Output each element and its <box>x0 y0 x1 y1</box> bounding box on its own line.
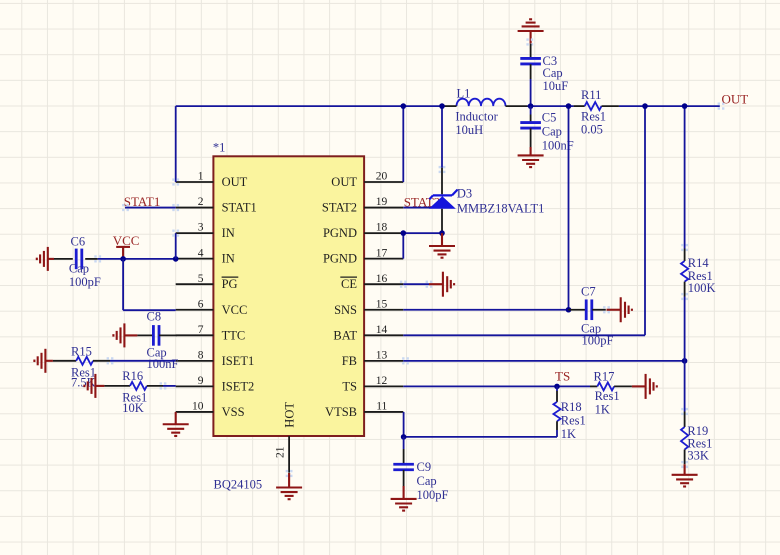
svg-text:16: 16 <box>376 273 388 285</box>
svg-text:20: 20 <box>376 171 388 183</box>
junction VCC <box>120 256 126 262</box>
wire C7 riser from top net <box>568 106 570 310</box>
wire VCC to pin6 <box>123 309 176 311</box>
ground below C5 <box>518 147 544 167</box>
pin 16 CE <box>364 283 403 285</box>
diode D3 MMBZ18VALT1 <box>441 168 443 195</box>
junction FB <box>682 358 688 364</box>
svg-text:STAT2: STAT2 <box>322 201 357 215</box>
svg-text:9: 9 <box>198 375 204 387</box>
resistor R18 <box>556 386 558 391</box>
wire VCC down to pin6 <box>122 259 124 310</box>
resistor R19 <box>684 361 686 412</box>
junction marker R19 bottom pin <box>681 461 688 468</box>
svg-text:ISET2: ISET2 <box>222 379 255 393</box>
pin 12 TS <box>364 385 403 387</box>
junction marker CE wire end <box>426 281 433 288</box>
svg-text:IN: IN <box>222 252 235 266</box>
svg-text:FB: FB <box>342 354 357 368</box>
junction SNS C7 <box>566 307 572 313</box>
junction VTSB C9 <box>401 434 407 440</box>
svg-text:1: 1 <box>198 171 204 183</box>
resistor R11 <box>574 105 585 107</box>
wire SNS net <box>403 309 568 311</box>
ground GND at pin 10 VSS <box>163 412 189 436</box>
svg-text:L1: L1 <box>457 87 471 101</box>
resistor R15 <box>53 360 76 362</box>
pin 21 stub <box>288 436 290 473</box>
pin 19 STAT2 <box>364 207 403 209</box>
ground at top of C3 <box>518 19 544 43</box>
junction marker R16 lead <box>160 382 167 389</box>
junction marker pin1 corner <box>172 178 179 185</box>
svg-text:10K: 10K <box>122 401 144 415</box>
svg-text:STAT1: STAT1 <box>124 194 161 209</box>
pin 2 STAT1 <box>176 207 214 209</box>
capacitor C9 <box>403 437 405 449</box>
wire pin3 riser <box>175 233 177 259</box>
pin 17 PGND <box>364 258 403 260</box>
pin 4 IN <box>176 258 214 260</box>
svg-text:5: 5 <box>198 273 204 285</box>
wire STAT2 from pin 19 <box>403 207 433 209</box>
junction pin3 riser <box>173 256 179 262</box>
svg-text:21: 21 <box>275 446 287 458</box>
capacitor C5 <box>530 106 532 114</box>
junction marker R19 top pin <box>681 408 688 415</box>
junction marker C3 top <box>526 38 533 45</box>
svg-text:10uH: 10uH <box>455 123 483 137</box>
svg-text:HOT: HOT <box>283 402 297 428</box>
svg-text:R17: R17 <box>594 370 615 384</box>
junction D3 bottom <box>439 230 445 236</box>
wire CE to ground <box>403 283 429 285</box>
svg-text:PGND: PGND <box>323 252 357 266</box>
svg-text:OUT: OUT <box>331 175 357 189</box>
pin 8 ISET1 <box>176 360 214 362</box>
wire VTSB to R18 <box>404 436 557 438</box>
svg-text:VCC: VCC <box>113 233 140 248</box>
junction marker CE stub end <box>400 281 407 288</box>
junction marker R15 lead <box>107 357 114 364</box>
svg-text:1K: 1K <box>595 403 610 417</box>
svg-text:100pF: 100pF <box>69 275 101 289</box>
ground right of R17 <box>632 374 657 399</box>
capacitor C3 <box>530 44 532 59</box>
svg-text:Cap: Cap <box>542 124 562 138</box>
pin 1 OUT <box>176 181 214 183</box>
resistor R14 <box>684 106 686 248</box>
junction marker R14 top pin <box>681 244 688 251</box>
wire pin18 to pin17 riser <box>402 233 404 259</box>
pin 14 BAT <box>364 334 403 336</box>
ground right of C7 <box>607 297 632 322</box>
svg-text:C5: C5 <box>542 110 557 124</box>
pin 20 OUT <box>364 181 403 183</box>
pin 10 VSS <box>176 411 214 413</box>
svg-text:Cap: Cap <box>69 262 89 276</box>
ground below C9 <box>391 486 417 511</box>
junction C3/C5 on top net <box>528 103 534 109</box>
resistor R16 <box>104 385 130 387</box>
svg-text:10uF: 10uF <box>543 79 569 93</box>
svg-text:C6: C6 <box>71 235 86 249</box>
junction marker pin3 riser top <box>172 230 179 237</box>
svg-text:11: 11 <box>376 401 387 413</box>
svg-text:Res1: Res1 <box>595 389 620 403</box>
wire PGND pins to D3 <box>403 232 442 234</box>
svg-text:13: 13 <box>376 349 388 361</box>
svg-text:1K: 1K <box>561 427 576 441</box>
ground left of R15 <box>34 349 53 373</box>
ground right of CE <box>429 272 454 297</box>
junction C7 riser top <box>566 103 572 109</box>
junction BAT riser top <box>642 103 648 109</box>
junction at pin20 riser <box>401 103 407 109</box>
svg-text:14: 14 <box>376 324 388 336</box>
pin 15 SNS <box>364 309 403 311</box>
junction marker STAT1 wire end <box>172 204 179 211</box>
pin 6 VCC <box>176 309 214 311</box>
svg-text:C9: C9 <box>417 460 432 474</box>
svg-text:Inductor: Inductor <box>455 110 498 124</box>
capacitor C8 <box>137 334 153 336</box>
wire D3 to top net <box>441 106 443 168</box>
junction TS R18 <box>554 384 560 390</box>
wire top net horizontal <box>176 105 442 107</box>
junction marker FB left end <box>402 357 409 364</box>
junction marker pin 21 <box>286 470 293 477</box>
svg-text:R18: R18 <box>561 400 582 414</box>
capacitor C7 <box>569 309 586 311</box>
wire STAT1 <box>125 207 176 209</box>
svg-text:Cap: Cap <box>417 474 437 488</box>
svg-text:*1: *1 <box>213 141 226 155</box>
svg-text:CE: CE <box>341 277 357 291</box>
svg-text:D3: D3 <box>457 187 472 201</box>
svg-text:R11: R11 <box>581 88 601 102</box>
pin 9 ISET2 <box>176 385 214 387</box>
junction marker STAT1 wire start <box>122 204 129 211</box>
wire FB net <box>403 360 684 362</box>
svg-text:VTSB: VTSB <box>325 405 357 419</box>
wire VTSB riser <box>403 412 405 437</box>
pin 11 VTSB <box>364 411 403 413</box>
wire BAT net <box>403 334 645 336</box>
svg-text:MMBZ18VALT1: MMBZ18VALT1 <box>457 201 545 215</box>
svg-text:15: 15 <box>376 298 388 310</box>
svg-text:8: 8 <box>198 349 204 361</box>
svg-text:VCC: VCC <box>222 303 248 317</box>
svg-text:12: 12 <box>376 375 388 387</box>
pin 18 PGND <box>364 232 403 234</box>
svg-text:7: 7 <box>198 324 204 336</box>
pin 7 TTC <box>176 334 214 336</box>
ground GND at pin 21 <box>276 473 302 499</box>
svg-text:OUT: OUT <box>222 175 248 189</box>
svg-text:PG: PG <box>222 277 238 291</box>
junction marker C6 right lead <box>94 255 101 262</box>
svg-text:SNS: SNS <box>334 303 357 317</box>
pin 3 IN <box>176 232 214 234</box>
ground below R19 <box>672 464 698 486</box>
junction pin18 <box>401 230 407 236</box>
junction marker OUT wire end <box>718 103 725 110</box>
junction marker D3 pin top <box>439 166 446 173</box>
pin 13 FB <box>364 360 403 362</box>
ground left of C6 <box>37 247 54 271</box>
svg-text:100pF: 100pF <box>417 488 449 502</box>
svg-text:Res1: Res1 <box>561 414 586 428</box>
svg-text:OUT: OUT <box>722 91 749 106</box>
svg-text:ISET1: ISET1 <box>222 354 255 368</box>
ground left of R16 <box>84 374 104 398</box>
svg-text:TS: TS <box>555 369 570 384</box>
svg-text:BQ24105: BQ24105 <box>214 478 263 492</box>
svg-text:C8: C8 <box>147 310 162 324</box>
svg-text:R16: R16 <box>122 369 143 383</box>
inductor L1 <box>457 99 506 106</box>
junction marker C7 right lead <box>603 306 610 313</box>
svg-text:19: 19 <box>376 196 388 208</box>
wire BAT riser to top net <box>644 106 646 335</box>
svg-text:IN: IN <box>222 226 235 240</box>
svg-text:STAT1: STAT1 <box>222 201 257 215</box>
svg-text:C7: C7 <box>581 284 596 298</box>
svg-text:TTC: TTC <box>222 328 246 342</box>
svg-text:100nF: 100nF <box>147 357 179 371</box>
junction R14 top <box>682 103 688 109</box>
resistor R17 <box>590 385 597 387</box>
ground left of C8 <box>113 323 137 347</box>
svg-text:6: 6 <box>198 298 204 310</box>
wire pin20 riser <box>402 106 404 182</box>
ground below D3 <box>429 233 455 258</box>
svg-text:R15: R15 <box>71 344 92 358</box>
pin 5 PG <box>176 283 214 285</box>
svg-text:100K: 100K <box>688 281 716 295</box>
svg-text:2: 2 <box>198 196 204 208</box>
junction marker R14 bottom pin <box>681 293 688 300</box>
svg-text:0.05: 0.05 <box>581 122 603 136</box>
IC U1 BQ24105 body <box>213 156 364 436</box>
svg-text:VSS: VSS <box>222 405 245 419</box>
junction D3 top <box>439 103 445 109</box>
wire pin1 riser <box>175 106 177 182</box>
svg-text:4: 4 <box>198 247 204 259</box>
svg-text:10: 10 <box>192 401 204 413</box>
svg-text:17: 17 <box>376 247 388 259</box>
svg-text:TS: TS <box>342 379 357 393</box>
svg-text:BAT: BAT <box>333 328 357 342</box>
svg-text:33K: 33K <box>687 449 709 463</box>
svg-text:18: 18 <box>376 222 388 234</box>
capacitor C6 <box>54 258 73 260</box>
svg-text:PGND: PGND <box>323 226 357 240</box>
svg-text:3: 3 <box>198 222 204 234</box>
wire TS net <box>403 385 590 387</box>
